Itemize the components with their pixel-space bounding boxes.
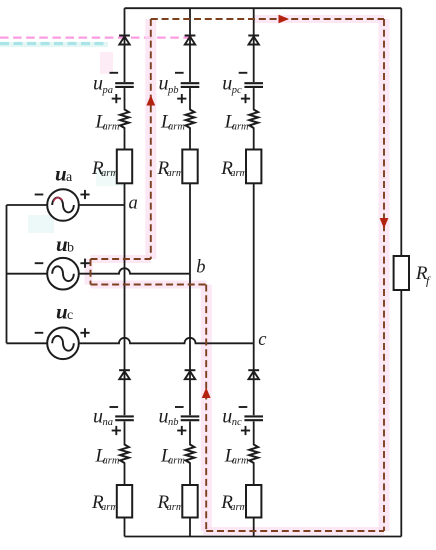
svg-text:b: b — [67, 241, 74, 256]
svg-text:c: c — [258, 330, 267, 350]
svg-text:arm: arm — [168, 455, 185, 466]
svg-text:nc: nc — [232, 417, 242, 428]
svg-text:b: b — [196, 257, 205, 277]
svg-text:pb: pb — [167, 85, 179, 96]
svg-text:na: na — [103, 417, 114, 428]
svg-text:arm: arm — [230, 168, 247, 179]
svg-text:u: u — [93, 73, 103, 95]
svg-text:arm: arm — [103, 122, 120, 133]
svg-text:pc: pc — [231, 85, 242, 96]
svg-text:u: u — [56, 232, 68, 256]
svg-text:arm: arm — [168, 122, 185, 133]
svg-text:u: u — [56, 300, 68, 324]
svg-text:a: a — [66, 170, 73, 185]
svg-text:u: u — [222, 406, 232, 428]
svg-text:arm: arm — [167, 502, 184, 513]
svg-text:nb: nb — [168, 417, 179, 428]
svg-text:f: f — [426, 273, 431, 287]
svg-text:u: u — [159, 406, 169, 428]
svg-text:arm: arm — [232, 122, 249, 133]
svg-text:u: u — [93, 406, 103, 428]
svg-text:u: u — [55, 161, 67, 185]
svg-text:arm: arm — [232, 455, 249, 466]
svg-text:c: c — [67, 308, 73, 323]
svg-text:arm: arm — [101, 502, 118, 513]
svg-text:u: u — [222, 73, 232, 95]
svg-text:a: a — [129, 194, 138, 214]
svg-text:arm: arm — [101, 168, 118, 179]
svg-text:pa: pa — [102, 85, 114, 96]
svg-text:arm: arm — [103, 455, 120, 466]
svg-text:arm: arm — [230, 502, 247, 513]
svg-text:arm: arm — [167, 168, 184, 179]
svg-text:u: u — [159, 73, 169, 95]
